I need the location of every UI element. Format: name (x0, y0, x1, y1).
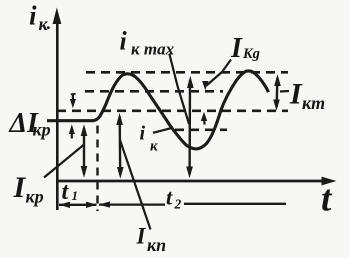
svg-text:к: к (39, 14, 49, 34)
svg-text:i: i (140, 123, 146, 145)
svg-text:t: t (166, 185, 173, 210)
svg-text:кm: кm (302, 93, 325, 113)
svg-text:i: i (120, 27, 128, 56)
svg-text:к: к (150, 139, 158, 155)
svg-text:1: 1 (72, 188, 79, 203)
svg-text:I: I (13, 171, 27, 204)
svg-text:Kg: Kg (242, 46, 260, 62)
svg-text:2: 2 (174, 196, 182, 211)
svg-text:I: I (230, 33, 243, 64)
svg-text:t: t (321, 179, 333, 220)
svg-text:I: I (136, 224, 147, 249)
svg-text:кр: кр (33, 120, 51, 140)
svg-text:I: I (289, 78, 303, 111)
svg-text:кп: кп (147, 235, 166, 255)
svg-text:к max: к max (131, 40, 175, 59)
svg-text:i: i (29, 1, 37, 31)
svg-text:кр: кр (26, 187, 44, 207)
